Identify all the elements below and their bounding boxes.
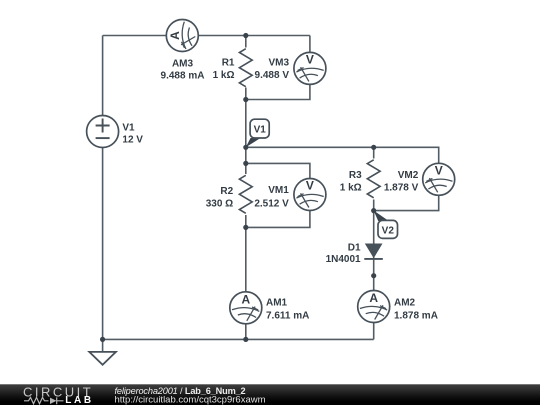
svg-text:V2: V2 (382, 225, 395, 236)
label VM3 designator and value (255, 57, 290, 81)
label D1 designator and value (326, 242, 361, 264)
node junction V1 net (243, 145, 248, 150)
node label V1 callout (246, 119, 269, 147)
node label V2 callout (374, 211, 398, 239)
svg-text:9.488 mA: 9.488 mA (161, 70, 205, 81)
svg-text:A: A (369, 291, 378, 305)
voltage source V1 (87, 116, 119, 148)
svg-text:9.488 V: 9.488 V (255, 70, 290, 81)
label R2 designator and value (206, 186, 234, 210)
svg-text:AM1: AM1 (266, 298, 288, 309)
label VM1 designator and value (254, 185, 289, 210)
svg-text:http://circuitlab.com/cqt3cp9r: http://circuitlab.com/cqt3cp9r6xawm (115, 395, 266, 405)
node junction at ground (100, 337, 105, 342)
resistor R1 (236, 48, 256, 88)
label R3 designator and value (340, 170, 362, 194)
svg-text:D1: D1 (348, 242, 361, 253)
svg-text:V: V (306, 179, 314, 193)
label R1 designator and value (213, 57, 235, 81)
CircuitLab logo schematic squiggle (resistor and diode) (24, 397, 64, 404)
ammeter AM2 (358, 291, 390, 323)
svg-text:1 kΩ: 1 kΩ (340, 182, 362, 193)
wire VM1 loop (246, 163, 310, 227)
svg-text:R3: R3 (349, 170, 362, 181)
diode D1 (364, 244, 383, 259)
svg-text:1 kΩ: 1 kΩ (213, 70, 235, 81)
wire top rail (103, 35, 310, 37)
svg-text:R1: R1 (222, 57, 235, 68)
ammeter AM1 (230, 292, 262, 324)
voltmeter VM3 (294, 52, 326, 84)
node junction at R2 bottom / VM1 return (243, 225, 248, 230)
svg-text:A: A (241, 293, 250, 307)
voltmeter VM1 (294, 179, 326, 211)
svg-text:AM3: AM3 (172, 59, 194, 70)
wire middle column (R1/R2/AM1 chain) (245, 36, 247, 340)
wire VM3 branch (top lead, bottom lead and return to node) (246, 36, 310, 100)
svg-text:12 V: 12 V (122, 135, 143, 146)
label AM2 designator and value (394, 298, 438, 322)
svg-text:2.512 V: 2.512 V (254, 198, 289, 209)
node junction at R1 bottom / VM3 return (243, 97, 248, 102)
voltmeter VM2 (423, 163, 455, 195)
svg-text:A: A (168, 31, 182, 40)
node junction at R1 top (243, 33, 248, 38)
ground (89, 352, 116, 365)
svg-text:V1: V1 (254, 124, 267, 135)
svg-text:VM1: VM1 (268, 185, 289, 196)
svg-text:1.878 V: 1.878 V (384, 182, 419, 193)
svg-text:7.611 mA: 7.611 mA (266, 310, 309, 321)
node junction between D1 and AM2 (371, 273, 376, 278)
svg-text:LAB: LAB (65, 395, 94, 405)
node junction at R3 top (371, 145, 376, 150)
svg-text:330 Ω: 330 Ω (206, 198, 233, 209)
label AM3 designator and value (161, 59, 205, 82)
node junction at R2 top / VM1 top (243, 161, 248, 166)
label V1 designator and value (122, 122, 143, 145)
svg-text:1N4001: 1N4001 (326, 254, 361, 265)
footer bar (0, 384, 540, 405)
svg-text:V1: V1 (122, 122, 135, 133)
wire R3 / D1 / AM2 column (373, 147, 375, 339)
label VM2 designator and value (384, 170, 419, 194)
svg-text:VM2: VM2 (398, 170, 419, 181)
svg-text:V: V (306, 53, 314, 67)
svg-text:V: V (435, 164, 443, 178)
svg-text:AM2: AM2 (394, 298, 416, 309)
wire bottom rail (103, 338, 374, 340)
svg-text:1.878 mA: 1.878 mA (394, 310, 438, 321)
resistor R3 (364, 159, 384, 200)
wire node V1 row and VM2 branch (246, 147, 439, 210)
ammeter AM3 (166, 20, 198, 52)
svg-text:VM3: VM3 (268, 57, 289, 68)
wire ground stem (102, 339, 104, 352)
resistor R2 (236, 174, 256, 215)
node junction V2 net (371, 208, 376, 213)
label AM1 designator and value (266, 298, 309, 322)
svg-text:R2: R2 (220, 186, 233, 197)
node junction at AM1 bottom / bottom rail (243, 337, 248, 342)
wire left rail (102, 36, 104, 340)
